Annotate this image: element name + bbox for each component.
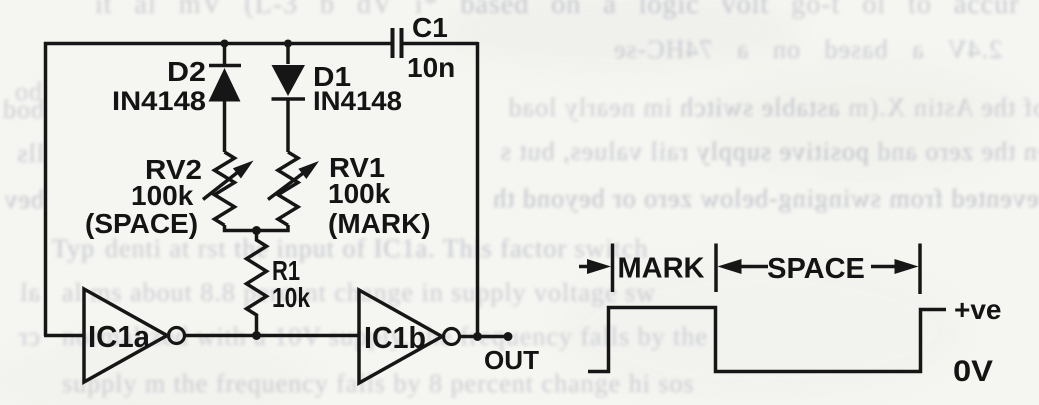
svg-text:bev: bev — [3, 185, 44, 214]
waveform diagram — [579, 244, 1002, 389]
tick mark 1 — [611, 244, 615, 293]
svg-text:lls: lls — [16, 139, 44, 168]
arrow from tick 2 — [718, 259, 769, 274]
svg-text:bod: bod — [2, 95, 44, 124]
node pot bar / R1 junction — [252, 226, 261, 235]
svg-text:IN4148: IN4148 — [112, 86, 206, 116]
node top rail / D2 junction — [221, 40, 229, 48]
svg-text:MARK: MARK — [618, 253, 705, 285]
node right rail / output junction — [473, 332, 482, 341]
wire right rail — [476, 42, 480, 337]
svg-text:cr: cr — [18, 322, 40, 351]
svg-text:(MARK): (MARK) — [328, 208, 431, 239]
wire left rail — [44, 42, 48, 336]
wire IC1b output — [460, 335, 509, 339]
potentiometer RV2 — [85, 152, 254, 239]
potentiometer RV1 — [268, 152, 431, 239]
diode D1 — [272, 44, 403, 153]
wire top rail right of C1 — [404, 42, 479, 46]
svg-text:al: al — [19, 278, 40, 307]
waveform trace — [588, 308, 946, 372]
svg-text:it al mV (L-3 b dV i* based on: it al mV (L-3 b dV i* based on a logic v… — [95, 0, 1039, 20]
svg-text:D2: D2 — [167, 56, 206, 87]
svg-text:+ve: +ve — [954, 294, 1002, 325]
svg-text:IN4148: IN4148 — [313, 86, 402, 116]
svg-text:C1: C1 — [412, 12, 448, 43]
tick mark 3 — [918, 244, 922, 295]
inverter IC1a — [84, 289, 185, 382]
wire pot bottom bar — [225, 225, 289, 231]
wire IC1a input — [44, 334, 84, 338]
svg-text:prevented from swinging-below: prevented from swinging-below zero or be… — [492, 184, 1039, 213]
resistor R1 — [247, 231, 311, 336]
node top rail / D1 junction — [284, 40, 292, 48]
svg-text:IC1a: IC1a — [88, 319, 151, 354]
tick mark 2 — [714, 244, 718, 293]
svg-text:IC1b: IC1b — [364, 320, 426, 355]
diode D2 — [112, 44, 241, 153]
svg-text:10n: 10n — [407, 52, 455, 83]
svg-text:SPACE: SPACE — [767, 253, 865, 285]
svg-text:(SPACE): (SPACE) — [85, 208, 198, 239]
svg-text:een the zero and positive supp: een the zero and positive supply rail va… — [500, 137, 1039, 166]
svg-text:t of the Astin X.(m astable sw: t of the Astin X.(m astable switch im ne… — [508, 93, 1039, 122]
svg-text:100k: 100k — [131, 180, 194, 211]
svg-text:2.4V a based on a 74HC-se: 2.4V a based on a 74HC-se — [613, 35, 1002, 64]
arrow into tick 1 — [579, 259, 611, 274]
wire top rail left of C1 — [44, 42, 391, 46]
inverter IC1b — [359, 290, 460, 383]
wire IC1a output to IC1b input — [185, 334, 359, 338]
svg-text:100k: 100k — [328, 178, 391, 209]
svg-text:0V: 0V — [953, 355, 993, 388]
schematic ink layer — [44, 12, 539, 383]
node OUT terminal — [504, 332, 513, 341]
svg-text:10k: 10k — [272, 282, 310, 313]
node R1 / output wire junction — [252, 331, 261, 340]
capacitor C1 — [393, 12, 456, 83]
svg-text:OUT: OUT — [484, 345, 539, 375]
arrow into tick 3 — [871, 259, 919, 274]
